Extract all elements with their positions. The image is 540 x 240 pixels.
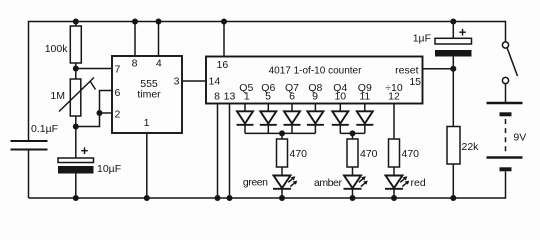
wire left frame upper [28, 21, 30, 141]
diode D6 from Q9 [356, 104, 373, 134]
wire 4017 reset pin 15 to C3 and R6 [423, 68, 454, 70]
svg-text:4: 4 [156, 58, 162, 70]
wire top rail corner to switch [505, 21, 507, 42]
svg-text:1M: 1M [50, 90, 65, 102]
resistor R1 100k [45, 26, 82, 63]
node pin 13 ground [227, 195, 233, 201]
wire 4017 pin 12 to R5 [393, 104, 395, 140]
node rail pin 4 [156, 19, 162, 25]
svg-text:10µF: 10µF [97, 163, 121, 175]
wire bottom ground rail [29, 197, 506, 199]
svg-text:3: 3 [174, 76, 180, 88]
node pot bottom junction [73, 124, 79, 130]
resistor R5 470 red [389, 139, 420, 167]
wire amber LED to ground [352, 189, 354, 198]
svg-text:1: 1 [244, 91, 250, 103]
diode D2 from Q6 [260, 104, 277, 134]
node R6 ground [450, 195, 456, 201]
svg-text:8: 8 [214, 91, 220, 103]
node green LED ground [279, 195, 285, 201]
resistor R4 470 amber [347, 139, 378, 167]
node C2 ground [73, 195, 79, 201]
diode D5 from Q4 [332, 104, 349, 134]
wire R2 bottom to C2 [75, 116, 77, 158]
node green bus junction [279, 130, 285, 136]
node rail pin 8 [132, 19, 138, 25]
wire top rail to R1 [75, 22, 77, 27]
IC U1 555 timer [112, 56, 182, 133]
svg-text:8: 8 [132, 58, 138, 70]
svg-text:470: 470 [360, 148, 378, 160]
svg-text:9V: 9V [513, 132, 526, 144]
wire 4017 pin 13 to ground [229, 104, 231, 199]
svg-text:470: 470 [402, 148, 420, 160]
diode D3 from Q7 [284, 104, 301, 134]
wire 4017 pin 16 to rail [223, 22, 225, 57]
wire 555 pin 4 to rail [158, 22, 160, 57]
wire amber bus to R4 [352, 133, 354, 139]
node reset junction [450, 66, 456, 72]
svg-text:14: 14 [209, 76, 221, 88]
battery B1 9V [487, 103, 527, 199]
svg-text:red: red [411, 177, 426, 189]
wire pot bottom to pins 6 and 2 [76, 91, 112, 127]
wire R1 bottom to junction [75, 63, 77, 79]
wire green bus to R3 [281, 133, 283, 139]
wire green LED to ground [281, 189, 283, 198]
svg-text:timer: timer [137, 89, 161, 101]
wire reset junction down to R6 [452, 57, 454, 127]
svg-text:10: 10 [334, 91, 346, 103]
svg-text:6: 6 [289, 91, 295, 103]
node amber LED ground [350, 195, 356, 201]
svg-text:4017 1-of-10 counter: 4017 1-of-10 counter [269, 66, 363, 77]
capacitor C2 10uF [58, 143, 121, 175]
svg-text:+: + [459, 25, 467, 40]
switch S1 [502, 42, 517, 103]
LED amber [314, 176, 368, 190]
node rail pin 16 [221, 19, 227, 25]
wire amber diode bus [340, 132, 365, 134]
capacitor C1 0.1uF [11, 123, 59, 150]
wire 4017 pin 8 to ground [217, 104, 219, 199]
svg-text:22k: 22k [462, 141, 480, 153]
wire R5 to red LED [393, 167, 395, 176]
svg-text:6: 6 [115, 87, 121, 99]
svg-text:reset: reset [395, 65, 418, 77]
resistor R6 22k [447, 127, 479, 165]
diode D1 from Q5 [237, 104, 254, 134]
svg-text:+: + [81, 143, 89, 158]
wire green diode bus [245, 132, 315, 134]
wire left frame lower [28, 150, 30, 199]
node pin 1 ground [144, 195, 150, 201]
wire 555 pin 1 to ground [146, 133, 148, 198]
diode D4 from Q8 [307, 104, 324, 134]
svg-text:16: 16 [217, 59, 229, 71]
svg-text:12: 12 [388, 91, 400, 103]
svg-text:11: 11 [359, 91, 370, 103]
svg-text:2: 2 [115, 109, 121, 121]
wire R3 to green LED [281, 167, 283, 176]
wire 555 pin 8 to rail [134, 22, 136, 57]
svg-text:1µF: 1µF [413, 33, 431, 45]
node red LED ground [391, 195, 397, 201]
svg-text:amber: amber [314, 177, 342, 189]
svg-text:470: 470 [290, 148, 308, 160]
svg-text:1: 1 [144, 117, 150, 129]
IC U2 4017 counter [206, 57, 423, 104]
node amber bus junction [350, 130, 356, 136]
svg-text:0.1µF: 0.1µF [31, 123, 58, 135]
svg-text:15: 15 [409, 76, 421, 88]
LED green [243, 176, 297, 189]
wire red LED to ground [393, 189, 395, 198]
svg-text:9: 9 [312, 91, 318, 103]
node rail C3 [450, 19, 456, 25]
capacitor C3 1uF [413, 22, 472, 57]
resistor R3 470 green [277, 139, 308, 167]
svg-text:13: 13 [224, 91, 236, 103]
wire junction to 555 pin 7 [76, 68, 112, 70]
svg-text:5: 5 [265, 91, 271, 103]
potentiometer R2 1M [50, 78, 95, 117]
wire top supply rail [29, 21, 506, 23]
svg-text:green: green [243, 177, 268, 189]
wire R4 to amber LED [352, 167, 354, 176]
node pins 2 6 junction [97, 110, 103, 116]
wire 555 pin 3 to 4017 pin 14 [182, 80, 206, 82]
node R1 R2 pin7 junction [73, 66, 79, 72]
node pin 8 ground [215, 195, 221, 201]
wire C2 bottom to ground rail [75, 174, 77, 199]
wire R6 to ground [452, 164, 454, 199]
svg-text:7: 7 [115, 64, 121, 76]
svg-text:100k: 100k [45, 43, 69, 55]
LED red [385, 176, 426, 190]
node top rail to R1 [73, 19, 79, 25]
